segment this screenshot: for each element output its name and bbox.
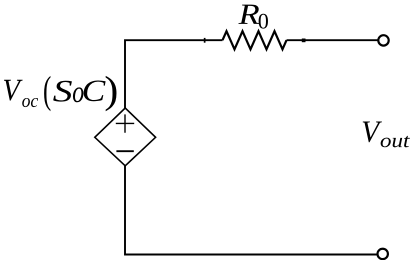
resistor R0 zigzag (223, 31, 287, 49)
dependent voltage source Voc (diamond) (95, 108, 156, 166)
node tick left of resistor (204, 38, 206, 43)
node tick right of resistor (302, 39, 306, 43)
wire top-left (vertical from source up, corner, horizontal to resistor) (125, 40, 223, 108)
terminal top-right (open circle) (378, 35, 388, 45)
wire resistor to top terminal (287, 39, 378, 41)
label Voc(SoC) (4, 76, 117, 111)
minus sign inside source (116, 150, 133, 152)
terminal bottom-right (open circle) (378, 249, 388, 259)
label Vout (363, 122, 410, 148)
wire source to bottom rail and bottom rail to terminal (125, 166, 378, 255)
label R0 (238, 5, 268, 29)
plus sign inside source (116, 114, 134, 132)
